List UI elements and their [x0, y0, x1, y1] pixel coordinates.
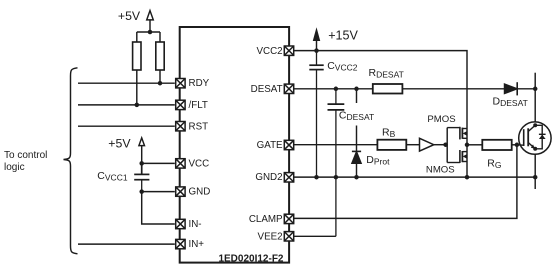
node junction IGBT emitter	[533, 147, 537, 151]
resistor RB	[377, 140, 406, 150]
node junction DProt-GND2	[354, 175, 359, 180]
brace to control logic	[64, 68, 78, 254]
svg-text:IN+: IN+	[189, 239, 205, 250]
wire collector stub	[534, 73, 536, 122]
resistor RG	[482, 140, 511, 150]
node junction CVCC2-GND2	[314, 175, 319, 180]
buffer amplifier	[420, 138, 434, 151]
svg-text:CVCC1: CVCC1	[97, 170, 128, 183]
svg-text:GND2: GND2	[255, 172, 282, 183]
wire CLAMP line	[294, 145, 517, 219]
node junction on /FLT	[135, 103, 140, 108]
pin DESAT	[284, 84, 293, 93]
supply +5V arrow (top)	[137, 11, 160, 42]
diode DProt	[352, 89, 361, 177]
wire VEE2 line	[294, 235, 336, 237]
svg-text:DDESAT: DDESAT	[493, 96, 528, 109]
pin VEE2	[284, 232, 293, 241]
wire emitter down	[534, 154, 536, 189]
wire RB to buffer	[406, 144, 419, 146]
IC U1 1ED020I12-F2 box	[180, 27, 289, 263]
wire DESAT line	[294, 88, 373, 90]
wire DESAT to diode	[402, 88, 504, 90]
svg-text:/FLT: /FLT	[189, 100, 208, 111]
wire resistor right lead down to RDY	[159, 70, 161, 83]
node junction booster output	[465, 143, 470, 148]
svg-text:RDESAT: RDESAT	[369, 67, 404, 80]
pin VCC2	[284, 46, 293, 55]
supply +15V arrow	[314, 30, 320, 51]
svg-text:CDESAT: CDESAT	[339, 109, 374, 122]
pin CLAMP	[284, 214, 293, 223]
node junction GND	[139, 189, 144, 194]
svg-text:+15V: +15V	[328, 28, 358, 42]
svg-text:RDY: RDY	[189, 78, 210, 89]
node junction emitter-GND2	[533, 175, 538, 180]
svg-text:RST: RST	[189, 121, 209, 132]
svg-text:CLAMP: CLAMP	[249, 214, 283, 225]
resistor pull-up RDY	[133, 42, 141, 70]
pin VCC	[176, 159, 185, 168]
wire RG to gate node	[512, 144, 519, 146]
diode DDESAT	[505, 82, 536, 95]
node junction collector	[533, 87, 538, 92]
pin /FLT	[176, 100, 185, 109]
resistor pull-up FLT	[156, 42, 164, 70]
wire VCC2 rail to PMOS	[294, 51, 467, 178]
pin RDY	[176, 79, 185, 88]
node junction +5V top	[148, 30, 153, 35]
node junction NMOS-GND2	[465, 175, 470, 180]
wire GND	[142, 191, 175, 193]
svg-text:RB: RB	[382, 127, 396, 140]
pin IN+	[176, 239, 185, 248]
wire IN- route	[142, 192, 175, 224]
node junction CDESAT	[334, 87, 339, 92]
pin GND2	[284, 173, 293, 182]
pin GATE	[284, 140, 293, 149]
svg-text:GND: GND	[189, 187, 211, 198]
capacitor CDESAT	[328, 89, 345, 237]
svg-text:DESAT: DESAT	[251, 84, 283, 95]
capacitor CVCC1	[134, 163, 149, 191]
node junction IGBT collector	[533, 123, 537, 127]
node junction IGBT gate	[515, 143, 520, 148]
supply +5V arrow (VCC)	[139, 138, 145, 164]
wire GATE line	[294, 144, 378, 146]
svg-text:DProt: DProt	[366, 154, 390, 167]
svg-text:To control: To control	[4, 150, 47, 161]
wire /FLT line	[78, 104, 175, 106]
svg-text:+5V: +5V	[118, 9, 141, 23]
IGBT body circle	[519, 122, 551, 154]
wire GND2 line	[294, 176, 536, 178]
node junction on RDY	[158, 81, 163, 86]
svg-text:IN-: IN-	[189, 219, 202, 230]
svg-text:NMOS: NMOS	[426, 165, 455, 176]
wire output to RG	[467, 144, 482, 146]
pin RST	[176, 122, 185, 131]
node junction CDESAT-GND2	[334, 175, 339, 180]
node junction DProt	[354, 87, 359, 92]
resistor RDESAT	[373, 84, 403, 94]
svg-text:RG: RG	[487, 158, 501, 171]
wire RDY line	[78, 82, 175, 84]
svg-text:logic: logic	[4, 162, 25, 173]
wire booster gate bar	[446, 128, 448, 163]
pin IN-	[176, 219, 185, 228]
wire VCC	[142, 162, 175, 164]
svg-text:PMOS: PMOS	[427, 114, 455, 125]
transistor PMOS	[447, 127, 467, 140]
svg-text:+5V: +5V	[108, 137, 131, 151]
svg-text:CVCC2: CVCC2	[327, 60, 358, 73]
transistor NMOS	[447, 150, 467, 163]
IGBT internals	[517, 125, 546, 149]
node junction gate bar	[443, 142, 448, 147]
node junction VCC	[139, 161, 144, 166]
capacitor CVCC2	[309, 51, 323, 178]
wire IN+ line	[78, 243, 175, 245]
svg-text:VCC2: VCC2	[256, 46, 282, 57]
svg-text:1ED020I12-F2: 1ED020I12-F2	[218, 254, 283, 265]
wire buffer to gates	[434, 144, 447, 146]
pin GND	[176, 187, 185, 196]
wire resistor left lead down to /FLT	[136, 70, 138, 105]
wire RST line	[78, 125, 175, 127]
svg-text:GATE: GATE	[257, 140, 283, 151]
node junction +15V	[314, 48, 319, 53]
svg-text:VEE2: VEE2	[258, 231, 283, 242]
svg-text:VCC: VCC	[189, 159, 210, 170]
